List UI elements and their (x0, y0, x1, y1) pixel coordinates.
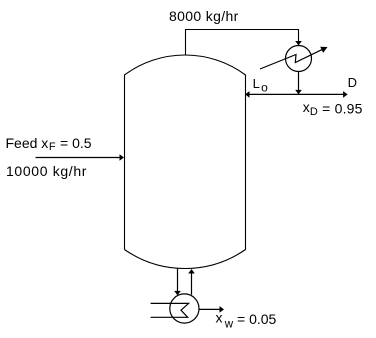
condenser coolant arrow (zigzag) (260, 50, 322, 69)
overhead vapor line (column top to condenser) (186, 30, 299, 56)
arrowhead onto product line (295, 90, 302, 95)
downcomer arrowhead (174, 291, 181, 296)
arrowhead into condenser (295, 41, 302, 46)
reboiler U2 (170, 294, 199, 323)
reflux / distillate line (246, 93, 348, 95)
boilup arrowhead (188, 269, 195, 274)
distillate arrowhead (D) (343, 91, 348, 98)
svg-text:D: D (348, 75, 357, 90)
distillation column vessel (125, 55, 246, 269)
svg-text:Lo: Lo (253, 76, 269, 94)
svg-text:xD = 0.95: xD = 0.95 (303, 99, 363, 118)
feed line (36, 157, 121, 159)
reboiler heating element (zigzag) (151, 303, 189, 317)
svg-text:10000 kg/hr: 10000 kg/hr (6, 163, 87, 179)
bottoms arrowhead (220, 306, 225, 313)
bottoms outlet line (199, 308, 220, 310)
condensate line (condenser to splitter) (298, 72, 300, 91)
feed arrowhead (120, 154, 125, 161)
reflux arrowhead into column (Lo) (245, 91, 250, 98)
condenser U1 (286, 46, 312, 72)
svg-text:xw = 0.05: xw = 0.05 (216, 309, 277, 330)
svg-text:Feed xF = 0.5: Feed xF = 0.5 (6, 135, 92, 153)
boilup vapor return (reboiler to column) (191, 273, 193, 295)
bottoms downcomer (column to reboiler) (177, 268, 179, 292)
svg-text:8000 kg/hr: 8000 kg/hr (169, 8, 239, 24)
coolant arrowhead (320, 47, 327, 53)
